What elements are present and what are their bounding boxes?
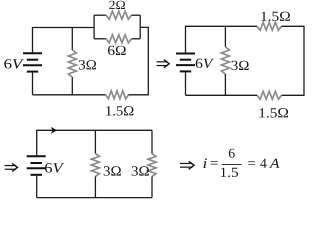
battery B1 6V [23, 52, 42, 54]
formula: first equals [211, 161, 218, 165]
resistor 1.5 ohm (circuit2 bottom) [257, 91, 282, 99]
resistor branch 3 ohm vertical (circuit1) [71, 28, 73, 51]
implies arrow before formula [180, 162, 192, 164]
formula: i [204, 158, 207, 168]
wire: circuit3 left edge below battery [36, 176, 38, 198]
wire: circuit1 top wire from battery to parallel box [33, 28, 95, 53]
label 3ohm (circuit1) [79, 60, 96, 69]
resistor branch 3 ohm vertical (circuit2) [224, 26, 226, 47]
resistor 6 ohm (box bottom edge) [94, 38, 106, 40]
resistor 1.5 ohm (circuit2 top) [257, 22, 282, 30]
label 6V (circuit3) [45, 163, 64, 173]
formula: 4 [260, 159, 267, 168]
resistor 3 ohm vertical middle branch (circuit3) [94, 130, 96, 153]
fraction bar [222, 164, 242, 166]
parallel box right edge [139, 15, 141, 39]
implies arrow before circuit3 [5, 165, 16, 167]
current direction arrow on circuit3 top wire [51, 127, 57, 134]
wire: circuit2 left edge below battery [185, 72, 187, 95]
resistor 3 ohm on right edge (circuit3) [151, 130, 153, 153]
wire: circuit2 left edge above battery and top wire to resistor [186, 26, 258, 52]
resistor 1.5 ohm bottom of circuit1 [106, 91, 129, 99]
implies arrow between circuit1 and circuit2 [157, 61, 168, 63]
resistor 2 ohm (box top edge) [94, 14, 106, 16]
wire: circuit1 left edge below battery [32, 73, 34, 95]
label 3ohm right (circuit3) [132, 166, 149, 175]
battery B3 6V [27, 155, 46, 157]
formula: second equals [248, 161, 255, 165]
label 2ohm [109, 1, 125, 9]
wire: circuit2 bottom left segment [186, 94, 258, 96]
fraction denominator 1.5 [221, 168, 238, 177]
label 3ohm (circuit2) [232, 61, 249, 70]
label 1.5ohm bottom (circuit2) [260, 108, 289, 118]
wire: circuit2 top right corner + right edge [282, 26, 305, 95]
wire: circuit1 bottom left segment [33, 94, 106, 96]
fraction numerator 6 [229, 149, 235, 158]
parallel box left edge [93, 15, 95, 39]
wire: circuit3 left edge above battery and top wire [37, 130, 152, 155]
label 1.5ohm (circuit1 bottom) [106, 106, 133, 116]
battery B2 6V [176, 53, 195, 55]
label 3ohm left (circuit3) [104, 166, 121, 175]
wire: circuit1 bottom right segment and right edge [129, 27, 149, 94]
label 6V (circuit2) [196, 59, 214, 69]
label 1.5ohm top (circuit2) [261, 12, 290, 22]
formula: A [269, 159, 279, 168]
label 6V (circuit1) [4, 59, 24, 69]
label 6ohm [108, 46, 126, 55]
wire: circuit3 bottom wire [37, 197, 152, 199]
